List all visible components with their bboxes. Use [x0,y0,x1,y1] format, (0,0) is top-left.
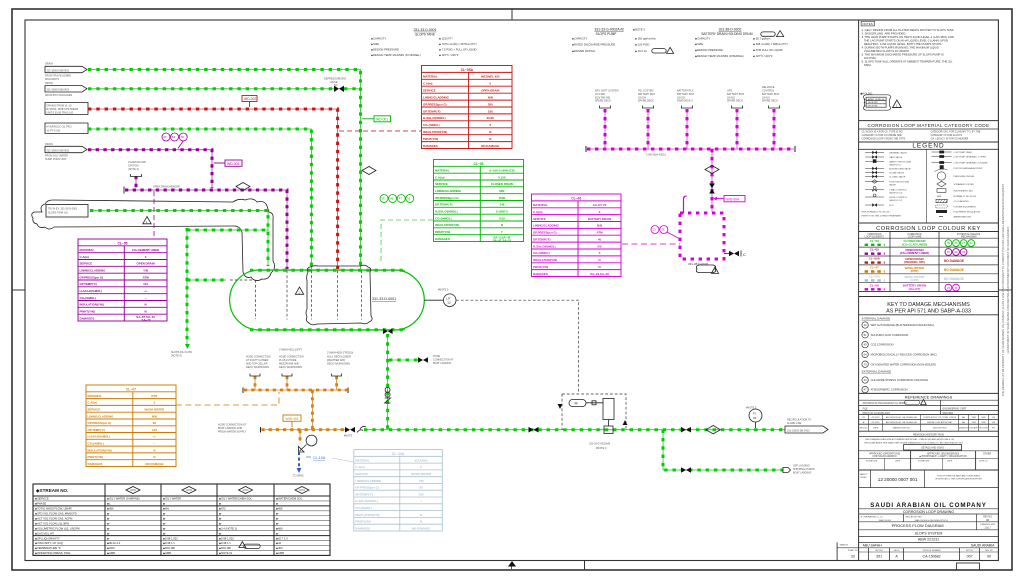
svg-text:◆666: ◆666 [107,507,114,511]
svg-text:331-33000-SB-0402: 331-33000-SB-0402 [47,89,70,92]
svg-text:(RTR): (RTR) [911,269,919,273]
vessel bottom outlet valve [383,328,393,334]
diamond flag on green vertical [362,167,376,175]
table CL-03 [434,160,524,242]
svg-text:WW-401: WW-401 [286,417,299,421]
table CL-07 [86,385,176,467]
tag CL-07 box [283,415,301,421]
svg-text:64: 64 [954,250,958,254]
svg-text:N: N [598,265,600,269]
svg-text:REVISION HISTORY RUN: REVISION HISTORY RUN [913,432,944,436]
svg-text:◆DESIGN PRESSURE: ◆DESIGN PRESSURE [371,47,399,51]
svg-text:CL−05: CL−05 [118,242,128,246]
svg-text:REFERENCE DRAWINGS: REFERENCE DRAWINGS [905,395,953,400]
revision cloud around drain line [32,199,275,281]
svg-text:LOW TEMP GENERAL LT PLATED: LOW TEMP GENERAL LT PLATED [954,161,989,164]
svg-text:TIE IN EX. 331-33-D-0001: TIE IN EX. 331-33-D-0001 [48,208,78,211]
svg-text:45: 45 [864,343,867,347]
svg-text:■ PROPONENT ▭ DEPT / ORGANIZA: ■ PROPONENT ▭ DEPT / ORGANIZATION [920,455,967,458]
svg-text:40: 40 [598,238,602,242]
svg-text:◆-: ◆- [163,513,166,516]
svg-text:SAFETY: SAFETY [860,473,868,476]
svg-text:331-33-D-0001: 331-33-D-0001 [372,297,396,301]
svg-text:ATM: ATM [596,231,603,235]
svg-text:SERVICE: SERVICE [80,262,93,266]
wire green drain line E [90,211,268,267]
svg-text:C.A(in): C.A(in) [423,82,433,86]
svg-text:AH: AH [962,421,965,424]
svg-text:DAMAGES: DAMAGES [533,272,548,276]
svg-text:INSULATION(Y/N): INSULATION(Y/N) [423,130,447,134]
svg-text:SULFURIC ACID CORROSION: SULFURIC ACID CORROSION [871,333,909,337]
svg-text:REACHING LOW LIQUID LEVEL BO: REACHING LOW LIQUID LEVEL BOTH THE PUMPS… [862,42,943,46]
svg-text:PROJ ENG: PROJ ENG [978,428,989,430]
wire green line B [88,88,334,90]
svg-text:331-33-G-0002A /B: 331-33-G-0002A /B [594,27,624,31]
svg-text:0: 0 [489,82,491,86]
svg-text:OP.TEMP(°F): OP.TEMP(°F) [533,238,551,242]
svg-text:12 20000 0007 001: 12 20000 0007 001 [878,477,918,482]
arrow down [185,344,190,349]
svg-text:◆-: ◆- [163,522,166,525]
hose drop 2 [286,376,288,390]
wire green loop left drop [186,228,188,344]
svg-text:MATERIAL: MATERIAL [423,75,438,79]
svg-text:◆ 40.0 hp: ◆ 40.0 hp [635,49,647,53]
svg-text:◆ 100 PSIG: ◆ 100 PSIG [635,43,649,47]
instrument NOTE5 [749,409,762,422]
svg-text:SERVICE: SERVICE [355,472,368,476]
svg-text:STRAINER / FILTER: STRAINER / FILTER [954,183,975,186]
svg-text:SLOPS TANK (N): SLOPS TANK (N) [48,212,68,215]
wire purple header P2 [125,190,287,269]
svg-text:CL−05A: CL−05A [869,257,881,261]
wire green dashes along vessel bottom [250,329,405,331]
svg-text:DATE: DATE [895,460,901,463]
svg-text:INTERNAL DAMAGE: INTERNAL DAMAGE [862,317,891,321]
svg-text:◆DESIGN PRESSURE: ◆DESIGN PRESSURE [695,48,723,52]
svg-text:N: N [153,455,155,459]
svg-text:YSR: YSR [971,422,976,424]
svg-text:NO DAMAGE: NO DAMAGE [481,144,499,148]
svg-text:◆-: ◆- [219,513,222,516]
svg-text:◆OPERATING PRESS, PSIG: ◆OPERATING PRESS, PSIG [35,551,70,555]
svg-text:RELAT.: RELAT. [860,476,867,479]
svg-text:331-33000-SB-0410: 331-33000-SB-0410 [787,430,810,433]
wire purple line P1 [88,150,212,188]
svg-text:◆SIZE: ◆SIZE [371,42,379,46]
svg-text:◆ 327°F / 200°F: ◆ 327°F / 200°F [753,54,773,58]
svg-text:H₂S/H₂O(%MOL): H₂S/H₂O(%MOL) [355,499,378,503]
svg-text:C.A(in): C.A(in) [533,210,543,214]
svg-text:DAMAGES: DAMAGES [88,462,103,466]
warning triangle in vessel [295,287,303,294]
svg-text:◆CAPACITY: ◆CAPACITY [695,36,711,40]
svg-text:THIS DRAWING HAS RUN: THIS DRAWING HAS RUN AUTOMATED APPROVAL … [865,438,955,441]
svg-text:OP.TEMP(°F): OP.TEMP(°F) [423,109,441,113]
svg-text:◆672: ◆672 [219,507,226,511]
svg-text:◆0.98 1.001: ◆0.98 1.001 [163,536,178,540]
svg-text:C: C [743,252,746,257]
svg-text:◆-: ◆- [163,527,166,530]
svg-text:AMEND/ DWG NO: AMEND/ DWG NO [893,427,910,430]
svg-text:−: − [154,442,156,446]
node B label box [45,82,87,97]
wash water manifold header [244,389,347,391]
battery hose drop 3 [686,109,688,149]
svg-text:(CS+CLAD LINED): (CS+CLAD LINED) [902,242,927,246]
svg-text:,SA−70: ,SA−70 [141,318,151,322]
svg-text:◆-: ◆- [276,522,279,525]
orange valve [345,427,355,433]
svg-text:FLARE LINE: FLARE LINE [787,422,802,425]
internal dip pipes dashed [255,280,257,319]
svg-text:YSR: YSR [971,417,976,419]
svg-text:MATERIAL: MATERIAL [80,248,95,252]
svg-text:OP.TEMP(°F): OP.TEMP(°F) [355,492,373,496]
svg-text:NO DAMAGE: NO DAMAGE [944,259,964,263]
svg-text:11x17: 11x17 [984,526,991,529]
border tick top [511,9,513,20]
svg-text:OTHER: OTHER [983,452,992,455]
svg-text:SHT NO: SHT NO [966,550,974,552]
svg-text:CL-10A: CL-10A [313,456,326,460]
svg-text:BATTERY DRAIN HOLDING DRUM: BATTERY DRAIN HOLDING DRUM [701,32,752,36]
svg-text:NO DAMAGE: NO DAMAGE [944,268,964,272]
svg-text:H₂S/H₂O(%MOL): H₂S/H₂O(%MOL) [80,289,103,293]
svg-text:INSULATION(Y/N): INSULATION(Y/N) [88,448,112,452]
svg-text:◆0.98 1.002: ◆0.98 1.002 [219,536,234,540]
svg-text:47: 47 [399,197,403,201]
svg-text:REV NO: REV NO [860,428,868,430]
svg-text:◆666: ◆666 [276,526,283,530]
svg-text:09: 09 [947,241,951,245]
material category code section [859,120,999,122]
svg-text:LINING/CLADDING: LINING/CLADDING [533,224,560,228]
svg-text:SPARE DECK: SPARE DECK [595,100,611,103]
svg-text:GENERAL VALVE: GENERAL VALVE [889,151,907,154]
svg-text:#NOTE 5: #NOTE 5 [438,289,449,292]
valve 1 [529,427,539,433]
svg-text:DAMAGES: DAMAGES [423,144,438,148]
wire red line R [88,109,338,269]
svg-text:−/−: −/− [152,435,156,439]
svg-text:51: 51 [970,241,974,245]
svg-text:SUMP PODS UNIT: SUMP PODS UNIT [45,158,67,161]
node D label box [45,123,88,134]
svg-text:◆: ◆ [219,503,222,506]
right panel: notes [861,21,875,26]
svg-text:ISSUED FOR APPROVAL: ISSUED FOR APPROVAL [927,421,953,424]
svg-text:09: 09 [381,197,385,201]
svg-text:INCONEL 625: INCONEL 625 [481,75,500,79]
svg-text:THIS SYSTEM IS A PART AND COMP: THIS SYSTEM IS A PART AND COMPONENT [937,475,981,478]
svg-text:0.09: 0.09 [499,216,505,220]
svg-text:FILE: FILE [863,407,868,410]
svg-text:◆AMB: ◆AMB [276,551,284,555]
svg-text:NO DAMAGE: NO DAMAGE [944,277,964,281]
svg-text:47: 47 [947,250,951,254]
svg-text:◆: ◆ [276,503,279,506]
wire green vessel left inlet [187,279,226,281]
svg-text:NNF: NNF [937,196,942,198]
svg-text:REGULAR BASIS PER SAES-VER: REGULAR BASIS PER SAES-VER UNDER DRAWING… [865,441,963,444]
svg-text:PWHT(Y/N): PWHT(Y/N) [80,310,95,314]
drum vent pipe [684,196,687,213]
svg-text:WASH WATER: WASH WATER [145,408,166,412]
svg-text:FCV: FCV [889,205,894,207]
battery hose drop 4 [736,109,738,149]
svg-text:DATE: DATE [947,460,953,463]
wire green bottom main line [364,429,785,431]
line break symbol [357,426,366,432]
svg-text:SA−23,SA−36: SA−23,SA−36 [590,272,609,276]
svg-text:CORROSION LOOP COLOUR KEY: CORROSION LOOP COLOUR KEY [876,226,981,232]
battery drain drum 331-38-D-0002 [680,213,724,259]
svg-text:0: 0 [154,401,156,405]
svg-text:PWHT POST WELD HEAT TREATM: PWHT POST WELD HEAT TREATMENT [862,215,903,218]
leader magenta from CL-06 table [622,243,680,245]
svg-text:N: N [598,258,600,262]
svg-text:INSULATION(Y/N): INSULATION(Y/N) [80,303,104,307]
svg-text:1: 1 [896,104,898,108]
tag HC-003 purple [214,160,242,166]
svg-text:SPARE DECK: SPARE DECK [638,100,654,103]
svg-text:007: 007 [967,555,973,559]
svg-text:2"AWW-4001-1/8"FT: 2"AWW-4001-1/8"FT [279,349,303,352]
svg-text:09: 09 [862,417,865,419]
svg-text:AH: AH [962,416,965,419]
svg-text:GLOBE VALVE: GLOBE VALVE [889,171,904,174]
svg-text:◆SP (LIQ) GRAVITY: ◆SP (LIQ) GRAVITY [35,536,60,540]
svg-text:CO₂(%MOL): CO₂(%MOL) [435,216,452,220]
warning triangle [143,217,151,224]
svg-text:◆TEMPERATURE °F: ◆TEMPERATURE °F [35,546,61,550]
svg-text:UNITS 33-36 TRAL-100: UNITS 33-36 TRAL-100 [47,111,74,114]
svg-text:MATERIAL: MATERIAL [435,169,450,173]
wire green vessel outlet down [387,334,389,429]
svg-text:AH-505503-001 CA-150680-001: AH-505503-001 CA-150680-001 [886,421,918,424]
svg-text:GA. LEGACY IS FOR CS HEADER: GA. LEGACY IS FOR CS HEADER [931,137,969,140]
svg-text:WASH WATER: WASH WATER [411,472,432,476]
svg-text:351: 351 [876,555,882,559]
svg-text:AH-505503-001 CA-150680-001: AH-505503-001 CA-150680-001 [886,416,918,419]
svg-text:Y: Y [501,230,503,234]
svg-text:CL−07: CL−07 [126,387,136,391]
svg-text:◆404: ◆404 [276,546,283,550]
svg-text:0: 0 [599,251,601,255]
svg-text:OF A PROJECT. THIS CERTIFICATI: OF A PROJECT. THIS CERTIFICATION SUPPORT [935,478,983,481]
battery hose drop 2 [647,109,649,149]
svg-text:N: N [145,303,147,307]
diamond flag on P2 [236,183,250,191]
leader green CL-03 table [381,220,433,263]
svg-text:INSULATION(Y/N): INSULATION(Y/N) [533,258,557,262]
svg-text:64: 64 [172,135,176,139]
reference drawings block [859,392,999,394]
damage circles 09 45 47 51 [380,195,414,203]
svg-text:◆100-180: ◆100-180 [219,546,231,550]
svg-text:36: 36 [954,286,958,290]
tag green HD box [374,116,391,122]
svg-text:OP.PRESS(psi G): OP.PRESS(psi G) [423,102,447,106]
svg-text:◆2.4 (NOTE 1): ◆2.4 (NOTE 1) [219,526,237,530]
wire orange lower line [261,429,345,431]
svg-text:N: N [420,520,422,524]
svg-text:PWHT(Y/N): PWHT(Y/N) [355,520,370,524]
svg-text:#NOTE 3: #NOTE 3 [596,447,607,450]
svg-text:23: 23 [652,228,656,232]
svg-text:CHLORIDE STRESS CORROSION CRAC: CHLORIDE STRESS CORROSION CRACKING [871,378,929,382]
svg-text:SAFETY SHUTDOWN: SAFETY SHUTDOWN [889,160,911,163]
svg-text:◆62.7 1.0: ◆62.7 1.0 [276,536,288,540]
svg-text:WD-003: WD-003 [227,162,240,166]
svg-text:FRESH WATER SUPPLY: FRESH WATER SUPPLY [218,431,247,434]
svg-text:47: 47 [962,241,966,245]
damage circles 47 64 70 [162,133,187,149]
svg-text:N: N [153,448,155,452]
wire green offloading branch [663,430,783,470]
svg-text:◆ACT VOL FLOW GAS, ACFM: ◆ACT VOL FLOW GAS, ACFM [35,516,73,520]
svg-text:140: 140 [499,203,504,207]
svg-text:31-PT-Z-001: 31-PT-Z-001 [47,129,62,132]
svg-text:45: 45 [954,241,958,245]
svg-text:REV AS NOTED: REV AS NOTED [906,515,923,518]
svg-text:SPARE DECK: SPARE DECK [762,100,778,103]
svg-text:◆NOTE 3: ◆NOTE 3 [633,27,645,31]
svg-text:CA-150682: CA-150682 [923,555,941,559]
border tick right [998,289,1012,291]
svg-text:6. SLOPS TANK WILL OPERATE AT: 6. SLOPS TANK WILL OPERATE AT AMBIENT TE… [862,60,953,64]
svg-text:◆PHASE: ◆PHASE [35,502,46,506]
svg-text:2. SKIDS/PLUMS ARE PROVIDED.: 2. SKIDS/PLUMS ARE PROVIDED. [862,32,907,36]
svg-text:LM: LM [992,422,995,424]
svg-text:SAUDI ARABIAN OIL COMPANY: SAUDI ARABIAN OIL COMPANY [870,502,987,509]
svg-text:47: 47 [864,388,867,392]
svg-text:◆60.02 2.2: ◆60.02 2.2 [107,541,121,545]
svg-text:(NOTE 4): (NOTE 4) [171,355,182,358]
svg-text:NO DAMAGE: NO DAMAGE [412,526,430,530]
svg-text:36: 36 [661,228,665,232]
svg-text:CO2 CORROSION: CO2 CORROSION [871,343,894,347]
red tag WD-002 [242,96,257,108]
svg-text:FOR SAUDI ARAMCO: FOR SAUDI ARAMCO [873,455,897,458]
wire green recycle loop top [187,229,268,231]
svg-text:(NOTE 3): (NOTE 3) [128,168,139,171]
svg-text:4. DURING BOTH PUMPS RUNNING,: 4. DURING BOTH PUMPS RUNNING, THE MAXIMU… [862,46,939,50]
svg-text:◆: ◆ [163,503,166,506]
svg-text:GDF: GDF [981,422,986,424]
vessel 331-33-D-0001 shell [230,270,425,330]
svg-text:SA−47,SA−51: SA−47,SA−51 [493,238,512,242]
svg-text:ATMOSPHERIC CORROSION: ATMOSPHERIC CORROSION [871,388,908,392]
svg-text:◆AMB: ◆AMB [107,551,115,555]
svg-text:VALVE (LCV): VALVE (LCV) [889,199,902,202]
svg-text:A: A [863,421,865,424]
svg-text:H₂S/H₂O(%MOL): H₂S/H₂O(%MOL) [423,116,446,120]
svg-text:09-2021: 09-2021 [872,417,881,419]
svg-text:NOTES:: NOTES: [862,22,873,26]
pump 331-33-G-0002A/B [562,394,626,430]
svg-text:1"AB-3004-1601A: 1"AB-3004-1601A [646,154,666,157]
svg-text:◆ACT VOL FLOW LIQ, BPD: ◆ACT VOL FLOW LIQ, BPD [35,521,69,525]
svg-text:◆44: ◆44 [276,541,282,545]
svg-text:◆ 327°F / 200°F: ◆ 327°F / 200°F [439,53,459,57]
svg-text:1500: 1500 [499,196,506,200]
svg-text:(GLA/NA): (GLA/NA) [415,459,428,463]
svg-text:◆STD VOL FLOW GAS, MMSCFD: ◆STD VOL FLOW GAS, MMSCFD [35,512,77,516]
svg-text:CO₂(%MOL): CO₂(%MOL) [80,296,97,300]
svg-text:COMPLETELY OF CORR. DWGS: COMPLETELY OF CORR. DWGS [923,417,957,419]
svg-text:◆-: ◆- [276,513,279,516]
svg-text:◆-: ◆- [107,517,110,520]
svg-text:NORMALLY NO FLOW: NORMALLY NO FLOW [954,195,978,198]
svg-text:◆NOTE 01: ◆NOTE 01 [219,551,233,555]
svg-text:◆SIZE: ◆SIZE [695,42,703,46]
svg-text:DATE: DATE [873,427,879,430]
svg-text:DECK WASHDOWN: DECK WASHDOWN [327,363,350,366]
svg-text:0: 0 [420,465,422,469]
svg-text:ENGINEERING CERT.: ENGINEERING CERT. [943,407,968,410]
svg-text:100 PSIG.: 100 PSIG. [862,56,877,60]
wire green line D [88,129,311,269]
svg-text:◆-: ◆- [163,517,166,520]
border bottom triangle marker [508,561,516,567]
svg-text:33: 33 [851,555,855,559]
svg-text:CO₂(%MOL): CO₂(%MOL) [423,123,440,127]
svg-text:◆VOLUMETRIC FLOW LIQ, USGPM: ◆VOLUMETRIC FLOW LIQ, USGPM [35,526,80,530]
svg-text:PROFILE NUMBER: PROFILE NUMBER [923,550,941,552]
svg-text:N: N [420,513,422,517]
svg-text:SERVICE: SERVICE [423,89,436,93]
svg-text:LINING/CLADDING: LINING/CLADDING [80,269,107,273]
svg-text:BOAT LANDING: BOAT LANDING [433,362,451,365]
svg-text:BATTERY DRAIN: BATTERY DRAIN [588,217,611,221]
wire instrument signal dashed [456,300,579,393]
svg-text:LINING/CLADDING: LINING/CLADDING [435,189,462,193]
svg-text:◆0.38 1.1: ◆0.38 1.1 [219,541,231,545]
svg-text:◆L: ◆L [107,502,111,506]
svg-text:C.A(in): C.A(in) [435,175,445,179]
svg-text:331-33-D-0001: 331-33-D-0001 [414,28,437,32]
svg-text:DRAWN BY: DRAWN BY [958,427,969,430]
svg-text:◆0.38 1.1: ◆0.38 1.1 [163,541,175,545]
svg-text:ATM: ATM [143,275,150,279]
svg-text:◆-: ◆- [107,537,110,540]
svg-text:PROCESS FLOW DIAGRAM: PROCESS FLOW DIAGRAM [892,523,944,528]
svg-text:70: 70 [962,250,966,254]
svg-text:ABW 221231: ABW 221231 [918,538,939,542]
svg-text:EQUIPMENT INSULATION: EQUIPMENT INSULATION [954,210,981,213]
svg-text:FIELD: FIELD [894,550,900,552]
svg-text:CL−05A: CL−05A [461,68,474,72]
svg-text:THE LAG PUMP STARTS ON HI-HI L: THE LAG PUMP STARTS ON HI-HI LIQUID LEVE… [862,39,948,43]
leader red to CL-05A table [339,130,422,132]
svg-text:◆ATM: ◆ATM [107,546,115,550]
svg-text:OP.TEMP(°F): OP.TEMP(°F) [88,428,106,432]
svg-text:LINING/CLADDING: LINING/CLADDING [423,95,450,99]
svg-text:◆ 508 mm(ID) x 686mm(T/T): ◆ 508 mm(ID) x 686mm(T/T) [753,42,788,46]
svg-text:◆-: ◆- [107,532,110,535]
svg-text:CORROSION LOOP DRAWING: CORROSION LOOP DRAWING [903,510,955,514]
svg-text:(CS+CEMENT LINED): (CS+CEMENT LINED) [900,251,929,255]
strainer diamond [706,426,720,434]
table CL-06 [532,194,622,277]
svg-text:OPEN DRAIN HEADER: OPEN DRAIN HEADER [153,186,180,189]
svg-text:0: 0 [145,255,147,259]
svg-text:SEARCH: SEARCH [840,544,849,547]
svg-text:OP.PRESS(psi G): OP.PRESS(psi G) [80,275,104,279]
